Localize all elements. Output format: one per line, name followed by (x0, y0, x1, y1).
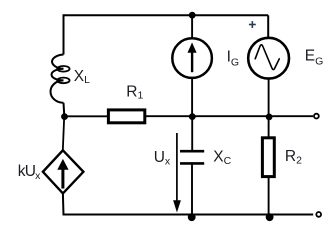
terminal lower right (316, 212, 321, 217)
wire top horizontal (64, 14, 269, 16)
node junction bottom-right (R2) (266, 213, 274, 221)
node junction bottom (XC) (188, 213, 196, 221)
dependent source kUx (diamond) (43, 150, 84, 193)
wire XC bottom (191, 165, 193, 215)
wire XC top (191, 117, 193, 150)
wire left vertical upper (63, 14, 65, 54)
kUx arrow (57, 159, 68, 189)
resistor R2 (262, 138, 274, 177)
current source IG circle (172, 38, 212, 78)
wire bottom horizontal (64, 214, 314, 216)
EG sine wave (255, 45, 279, 70)
wire IG top (191, 15, 193, 39)
capacitor XC plates (180, 151, 204, 163)
plus sign of EG (249, 21, 256, 28)
wire diamond bottom to corner (62, 193, 65, 215)
wire left vertical mid (coil to node) (63, 103, 66, 117)
node junction left-middle (61, 113, 68, 120)
wire middle left (node to R1) (65, 115, 108, 117)
wire R2 bottom (268, 177, 270, 215)
IG arrow (188, 42, 197, 72)
voltage arrow Ux (173, 133, 181, 213)
wire EG corner from top wire (267, 15, 269, 37)
node junction middle-right (EG/R2) (266, 114, 273, 121)
voltage source EG circle (248, 38, 289, 79)
wire EG bottom (268, 79, 270, 117)
node junction top (IG) (189, 12, 196, 19)
wire node to diamond top (63, 117, 64, 151)
resistor R1 (108, 110, 144, 123)
wire R2 top (268, 117, 270, 138)
node junction middle (XC/IG) (189, 113, 196, 120)
wire middle right (R1 to terminal) (146, 115, 313, 117)
inductor XL (51, 55, 70, 103)
terminal upper right (314, 114, 319, 119)
wire IG bottom (191, 78, 193, 116)
